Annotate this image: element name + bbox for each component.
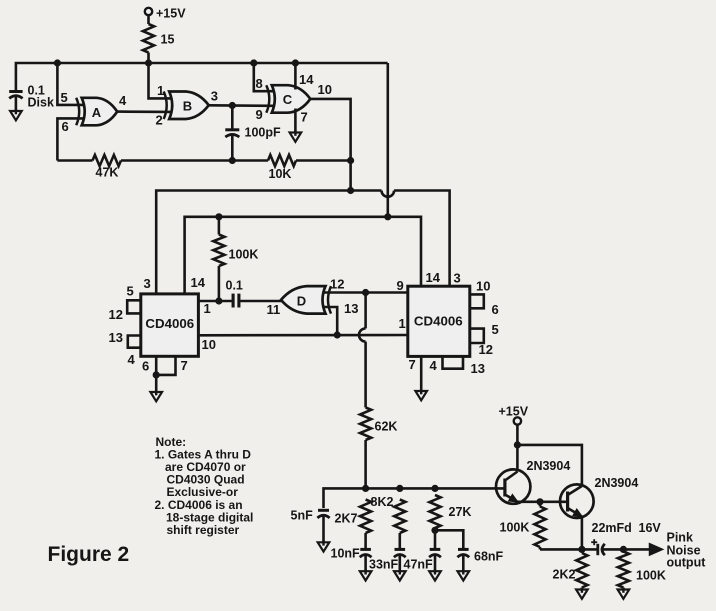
- wire top supply bus: [16, 63, 388, 91]
- svg-text:Pink: Pink: [667, 531, 693, 545]
- wire long vertical from top bus: [386, 63, 389, 217]
- wire IC1 pin 10 to IC2 pin 1 (data line): [198, 334, 407, 337]
- wire 27K junction to 68nF: [435, 530, 463, 549]
- svg-text:9: 9: [397, 278, 404, 293]
- pin label 6 IC1: [142, 359, 149, 374]
- wire 62K to filter bus: [364, 440, 367, 488]
- junction gate D pin 13 on data line: [334, 331, 341, 338]
- svg-text:13: 13: [344, 301, 358, 316]
- xor gate C: [266, 85, 310, 113]
- svg-text:100K: 100K: [500, 521, 530, 535]
- svg-text:output: output: [667, 556, 707, 570]
- ground below gate C pin 7: [290, 131, 302, 142]
- svg-text:Figure 2: Figure 2: [48, 543, 130, 566]
- wire gate A pin 5 input: [57, 63, 83, 105]
- junction clock line at gate C output: [347, 187, 354, 194]
- wire 2K7 to 10nF: [364, 533, 367, 549]
- resistor 8K2: [371, 495, 406, 533]
- resistor 2K2: [553, 553, 588, 590]
- svg-text:14: 14: [191, 275, 206, 290]
- junction collector supply: [514, 441, 521, 448]
- svg-text:D: D: [297, 294, 306, 309]
- svg-text:10nF: 10nF: [331, 547, 361, 561]
- svg-text:5nF: 5nF: [291, 509, 314, 523]
- pin label 13 IC1: [109, 330, 123, 345]
- pin label 6 IC2: [492, 302, 499, 317]
- junction 100pF tap: [229, 102, 236, 109]
- junction IC1 pin1 at 100K: [215, 297, 222, 304]
- capacitor 5nF: [291, 509, 330, 523]
- junction tap at gate D pin 12: [362, 289, 369, 296]
- svg-text:1: 1: [157, 83, 164, 98]
- svg-text:CD4006: CD4006: [145, 316, 194, 331]
- junction filter bus at 2K7: [362, 485, 369, 492]
- wire +15V terminal to resistor 15: [147, 15, 150, 24]
- svg-text:10: 10: [318, 82, 332, 97]
- svg-text:9: 9: [256, 107, 263, 122]
- resistor 47K: [57, 155, 121, 180]
- transistor Q1 2N3904: [496, 459, 570, 504]
- junction 27K bottom: [431, 527, 438, 534]
- svg-text:10K: 10K: [269, 167, 292, 181]
- svg-text:16V: 16V: [639, 521, 662, 535]
- pin label 12 gate D: [330, 277, 344, 292]
- junction filter bus at 27K: [431, 485, 438, 492]
- resistor 10K: [268, 155, 296, 181]
- svg-text:6: 6: [492, 302, 499, 317]
- pin label 3 IC1: [144, 276, 151, 291]
- wire +15V to collector node: [516, 425, 519, 445]
- svg-text:62K: 62K: [375, 420, 398, 434]
- resistor 100K bias: [213, 217, 258, 301]
- pin label 13 gate D: [344, 301, 358, 316]
- junction 100K top: [215, 213, 222, 220]
- svg-text:7: 7: [181, 358, 188, 373]
- svg-text:8K2: 8K2: [371, 495, 394, 509]
- ground below 10nF: [360, 569, 372, 580]
- ground below 5nF: [318, 540, 330, 551]
- svg-text:2N3904: 2N3904: [595, 476, 639, 490]
- note text block: [155, 435, 254, 537]
- svg-text:Disk: Disk: [28, 96, 54, 110]
- capacitor 10nF: [331, 547, 372, 561]
- svg-text:10: 10: [202, 337, 216, 352]
- junction 47K/10K at 100pF: [229, 157, 236, 164]
- pin label 5 gate A: [61, 90, 68, 105]
- wire 10nF to ground: [364, 555, 367, 571]
- wire 47nF to ground: [434, 555, 437, 571]
- svg-text:Exclusive-or: Exclusive-or: [167, 485, 239, 499]
- svg-text:10: 10: [476, 279, 490, 294]
- ground below IC2 pin 7: [415, 389, 427, 400]
- wire IC1 pin 6 to ground: [155, 356, 158, 392]
- svg-text:8: 8: [256, 76, 263, 91]
- ground below output 100K: [618, 588, 630, 599]
- xor gate A: [76, 98, 117, 126]
- svg-text:+15V: +15V: [499, 405, 529, 419]
- resistor 27K: [429, 495, 471, 528]
- IC U1 CD4006: [141, 294, 199, 356]
- wire Q1 emitter to Q2 base: [515, 500, 568, 503]
- ground below 68nF: [458, 569, 470, 580]
- wire 33nF to ground: [398, 555, 401, 571]
- svg-text:6: 6: [142, 359, 149, 374]
- wire 68nF to ground: [462, 555, 465, 571]
- junction IC1 pins 6-7: [153, 371, 160, 378]
- svg-text:13: 13: [471, 361, 485, 376]
- IC U2 CD4006: [408, 286, 470, 356]
- ground below IC1 pin 6: [150, 390, 162, 401]
- resistor 62K: [360, 408, 397, 441]
- wire 47K to 100pF node: [121, 159, 232, 162]
- junction output node: [578, 546, 585, 553]
- ground below 47nF: [429, 569, 441, 580]
- pin label 10 IC1: [202, 337, 216, 352]
- pin label 10 IC2: [476, 279, 490, 294]
- wire shift-register clock line (pin 3 to pin 3): [156, 191, 449, 294]
- pin label 4 gate A output: [119, 93, 127, 108]
- pin label 13 IC2: [471, 361, 485, 376]
- svg-text:27K: 27K: [449, 505, 472, 519]
- svg-text:12: 12: [479, 342, 493, 357]
- wire gate C output down to feedback node: [310, 99, 350, 191]
- pin label 2 gate B: [156, 113, 163, 128]
- pin label 7 gate C: [301, 110, 308, 125]
- svg-text:shift register: shift register: [167, 523, 240, 537]
- wire gate B pin 1 input: [149, 63, 172, 98]
- capacitor 100pF: [225, 126, 281, 140]
- pin label 3 gate B output: [211, 89, 218, 104]
- pin label 9 gate C: [256, 107, 263, 122]
- stub IC1 pins 13-4: [128, 336, 141, 348]
- svg-text:11: 11: [267, 302, 281, 317]
- pin label 7 IC2: [409, 357, 416, 372]
- pin label 6 gate A: [62, 119, 69, 134]
- svg-text:12: 12: [109, 307, 123, 322]
- wire gate A output to gate B pin 2: [117, 110, 171, 113]
- capacitor 22mFd 16V electrolytic: [591, 521, 661, 555]
- svg-text:68nF: 68nF: [474, 550, 504, 564]
- resistor 100K (Q1 emitter): [500, 502, 546, 550]
- svg-text:5: 5: [492, 322, 499, 337]
- pin label 1 IC2: [399, 316, 406, 331]
- svg-text:33nF: 33nF: [369, 558, 399, 572]
- ground below 2K2: [576, 588, 588, 599]
- pin label 4 IC2: [430, 358, 438, 373]
- svg-text:+15V: +15V: [156, 7, 186, 21]
- junction top bus at gate C pin 8: [250, 59, 257, 66]
- caption Figure 2: [48, 543, 130, 566]
- wire pin 14 supply line (IC1 to IC2): [185, 217, 421, 294]
- svg-text:4: 4: [119, 93, 127, 108]
- svg-text:5: 5: [61, 90, 68, 105]
- svg-text:1: 1: [399, 316, 406, 331]
- wire tap vertical with hop over data line: [359, 293, 366, 408]
- wire 0.1 cap to gate D output: [239, 300, 283, 303]
- pin label 1 gate B: [157, 83, 164, 98]
- svg-text:5: 5: [127, 284, 134, 299]
- junction long vertical at pin-14 line: [384, 213, 391, 220]
- junction filter bus at 8K2: [396, 485, 403, 492]
- ground below 33nF: [394, 569, 406, 580]
- svg-text:100K: 100K: [636, 569, 666, 583]
- capacitor 47nF: [404, 549, 441, 571]
- wire resistor 15 to top supply bus: [147, 53, 150, 64]
- xor gate B: [164, 92, 209, 120]
- stub IC2 pins 4-13: [443, 356, 464, 368]
- svg-text:1: 1: [204, 301, 211, 316]
- svg-text:47K: 47K: [96, 166, 119, 180]
- wire Q1 collector: [516, 445, 519, 472]
- wire 8K2 to 33nF: [398, 533, 401, 549]
- ground below 0.1 Disk: [10, 109, 22, 120]
- pin label 5 IC1: [127, 284, 134, 299]
- power terminal +15V (top): [145, 7, 186, 21]
- wire 100pF top: [231, 106, 234, 130]
- junction top bus at resistor 15: [145, 59, 152, 66]
- pin label 11 gate D output: [267, 302, 281, 317]
- svg-text:0.1: 0.1: [226, 279, 243, 293]
- wire cap to output arrow node: [604, 548, 651, 551]
- svg-text:3: 3: [454, 271, 461, 286]
- junction at output 100K: [620, 546, 627, 553]
- svg-text:2K7: 2K7: [335, 512, 358, 526]
- wire gate C pin 7 to ground: [294, 109, 297, 133]
- svg-text:100K: 100K: [229, 248, 259, 262]
- svg-text:13: 13: [109, 330, 123, 345]
- wire Q2 emitter down: [581, 517, 584, 550]
- pin label 4 IC1: [128, 352, 136, 367]
- capacitor 33nF: [369, 549, 406, 571]
- stub IC2 pins 5-12: [470, 329, 484, 343]
- output arrow Pink Noise: [650, 531, 707, 570]
- svg-text:2K2: 2K2: [553, 568, 576, 582]
- resistor 100K (output): [618, 552, 666, 590]
- svg-text:15: 15: [161, 33, 175, 47]
- wire IC1 pin 1 line: [198, 300, 233, 303]
- svg-text:3: 3: [211, 89, 218, 104]
- svg-text:100pF: 100pF: [245, 126, 281, 140]
- svg-text:2N3904: 2N3904: [527, 459, 571, 473]
- wire 10K to gate C output node: [296, 159, 351, 162]
- junction 10K at gate C output vertical: [347, 157, 354, 164]
- pin label 3 IC2: [454, 271, 461, 286]
- svg-text:6: 6: [62, 119, 69, 134]
- svg-text:47nF: 47nF: [404, 558, 434, 572]
- svg-text:2: 2: [156, 113, 163, 128]
- pin label 10 gate C output: [318, 82, 332, 97]
- svg-text:B: B: [183, 99, 192, 114]
- svg-text:7: 7: [301, 110, 308, 125]
- wire gate C pin 14 supply: [294, 63, 297, 90]
- svg-text:14: 14: [426, 270, 441, 285]
- capacitor 0.1 coupling: [226, 279, 243, 308]
- svg-text:7: 7: [409, 357, 416, 372]
- wire gate B output to gate C pin 9: [209, 104, 274, 107]
- stub IC1 pin 7 tie: [156, 356, 175, 375]
- wire 5nF to ground: [322, 516, 325, 542]
- stub IC2 pins 10-6: [470, 294, 484, 308]
- svg-text:3: 3: [144, 276, 151, 291]
- wire gate A pin 6 input: [57, 118, 83, 160]
- svg-text:4: 4: [128, 352, 136, 367]
- resistor 15: [143, 24, 175, 53]
- capacitor 68nF: [457, 549, 503, 563]
- transistor Q2 2N3904: [560, 476, 638, 518]
- wire 100pF node to 10K: [232, 159, 268, 162]
- svg-text:12: 12: [330, 277, 344, 292]
- svg-text:4: 4: [430, 358, 438, 373]
- pin label 5 IC2: [492, 322, 499, 337]
- pin label 12 IC2: [479, 342, 493, 357]
- stub IC1 pins 5-12: [127, 300, 141, 313]
- pin label 14 gate C: [299, 72, 314, 87]
- pin label 12 IC1: [109, 307, 123, 322]
- wire supply to Q2 collector: [517, 445, 582, 486]
- svg-text:CD4006: CD4006: [414, 314, 463, 329]
- wire gate C pin 8 input: [254, 63, 274, 91]
- pin label 8 gate C: [256, 76, 263, 91]
- junction Q1 emitter / 100K: [536, 498, 543, 505]
- wire 100K to output node: [540, 548, 598, 551]
- pin label 1 IC1: [204, 301, 211, 316]
- pin label 14 IC1: [191, 275, 206, 290]
- wire gate D pin 13 down to data line: [324, 307, 337, 335]
- pin label 9 IC2: [397, 278, 404, 293]
- pin label 7 IC1: [181, 358, 188, 373]
- svg-text:C: C: [283, 92, 293, 107]
- pin label 14 IC2: [426, 270, 441, 285]
- junction top bus at C1 branch: [54, 59, 61, 66]
- wire 100pF bottom: [231, 135, 234, 161]
- wire 27K to caps: [434, 528, 437, 549]
- svg-text:14: 14: [299, 72, 314, 87]
- resistor 2K7: [335, 500, 372, 534]
- power terminal +15V (amp): [499, 405, 529, 425]
- wire filter bus: [324, 488, 506, 508]
- wire IC2 pin 7 to ground: [420, 356, 423, 391]
- svg-text:A: A: [92, 105, 102, 120]
- capacitor 0.1 Disk: [9, 84, 54, 110]
- xor gate D: [281, 286, 331, 314]
- wire gate D pin 12 to IC2 pin 9: [324, 291, 408, 294]
- wire capacitor 0.1 to ground: [15, 97, 18, 112]
- junction top bus at gate C pin 14: [292, 59, 299, 66]
- svg-text:22mFd: 22mFd: [592, 521, 632, 535]
